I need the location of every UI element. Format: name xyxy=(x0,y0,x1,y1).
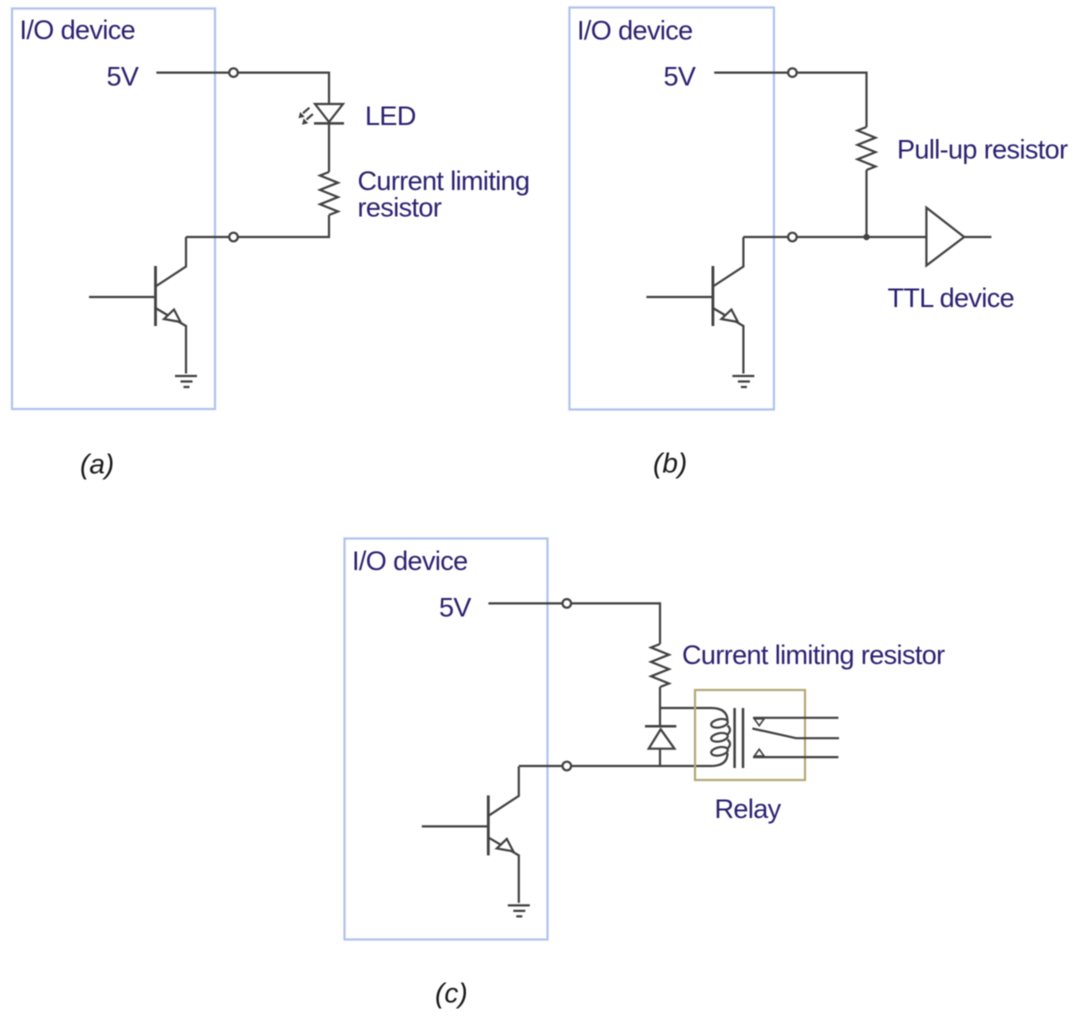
terminal circle B bottom xyxy=(788,233,797,242)
buffer U1 TTL xyxy=(926,208,964,266)
terminal circle C top xyxy=(563,599,572,608)
terminal circle B top xyxy=(788,68,797,77)
resistor R2 pull-up xyxy=(858,127,876,170)
svg-text:resistor: resistor xyxy=(358,192,442,222)
relay box xyxy=(695,690,805,780)
relay contact top arrow xyxy=(754,719,764,726)
svg-text:I/O device: I/O device xyxy=(577,16,693,46)
svg-text:I/O device: I/O device xyxy=(20,15,136,45)
relay coil entry arc xyxy=(711,708,728,721)
wire collector to circle B xyxy=(743,236,787,238)
wire junction to diode xyxy=(659,708,661,726)
resistor R3 current limiting xyxy=(651,644,669,687)
wire LED to resistor A xyxy=(328,123,330,172)
relay coil spine cusp 1 xyxy=(728,726,730,735)
LED light arrow 1 xyxy=(299,108,310,119)
relay coil exit arc xyxy=(711,753,728,766)
svg-text:Pull-up resistor: Pull-up resistor xyxy=(897,135,1068,165)
resistor R1 current limiting xyxy=(320,172,338,215)
LED D1 xyxy=(314,104,344,123)
wire resistor to junction C xyxy=(659,687,661,708)
relay contact top line xyxy=(753,717,838,719)
wire 5V A left xyxy=(156,71,228,73)
wire collector to circle C xyxy=(519,765,562,767)
transistor Q2 xyxy=(646,237,754,387)
svg-text:I/O device: I/O device xyxy=(352,546,468,576)
wire resistor to lower node A xyxy=(238,215,329,237)
relay core line 1 xyxy=(733,708,736,768)
relay coil loop 1 xyxy=(710,718,728,729)
wire lower node to collector A xyxy=(186,236,229,238)
I/O device box B xyxy=(569,8,774,410)
wire circle to coil bottom xyxy=(572,765,711,767)
I/O device box C xyxy=(345,539,548,940)
svg-text:5V: 5V xyxy=(664,62,696,92)
svg-text:LED: LED xyxy=(365,101,416,131)
terminal circle A bottom xyxy=(229,233,238,242)
relay contact bottom line xyxy=(753,756,838,758)
svg-text:(b): (b) xyxy=(653,448,687,479)
wire junction to coil top xyxy=(660,707,711,709)
wire resistor to node B xyxy=(865,170,867,237)
LED light arrow 2 xyxy=(302,114,313,125)
svg-text:Relay: Relay xyxy=(715,794,782,824)
transistor Q1 xyxy=(89,237,197,387)
wire circle to buffer input B xyxy=(797,236,926,238)
diode D2 flyback xyxy=(645,726,676,748)
wire 5V A right + drop to LED xyxy=(238,73,329,104)
relay core line 2 xyxy=(742,708,745,768)
relay coil loop 3 xyxy=(710,746,728,757)
I/O device box A xyxy=(12,9,215,410)
wire 5V B left xyxy=(714,71,787,73)
svg-text:TTL device: TTL device xyxy=(888,283,1015,313)
wire 5V C left xyxy=(488,602,562,604)
relay coil spine cusp 2 xyxy=(728,740,730,749)
junction node B xyxy=(863,234,869,240)
svg-text:(c): (c) xyxy=(435,978,468,1009)
svg-text:Current limiting resistor: Current limiting resistor xyxy=(682,640,945,670)
wire 5V C right + drop to resistor xyxy=(572,603,660,644)
wire diode to bottom rail xyxy=(659,749,661,766)
terminal circle A top xyxy=(229,68,238,77)
svg-text:5V: 5V xyxy=(107,62,139,92)
wire buffer output xyxy=(964,236,991,238)
svg-text:Current limiting: Current limiting xyxy=(358,166,530,196)
relay armature xyxy=(752,729,839,739)
terminal circle C bottom xyxy=(563,762,572,771)
wire 5V B right + drop to resistor xyxy=(797,73,866,127)
svg-text:(a): (a) xyxy=(80,449,114,480)
svg-text:5V: 5V xyxy=(439,592,471,622)
relay contact bottom arrow xyxy=(754,749,764,756)
transistor Q3 xyxy=(422,766,530,916)
relay coil loop 2 xyxy=(710,732,728,743)
